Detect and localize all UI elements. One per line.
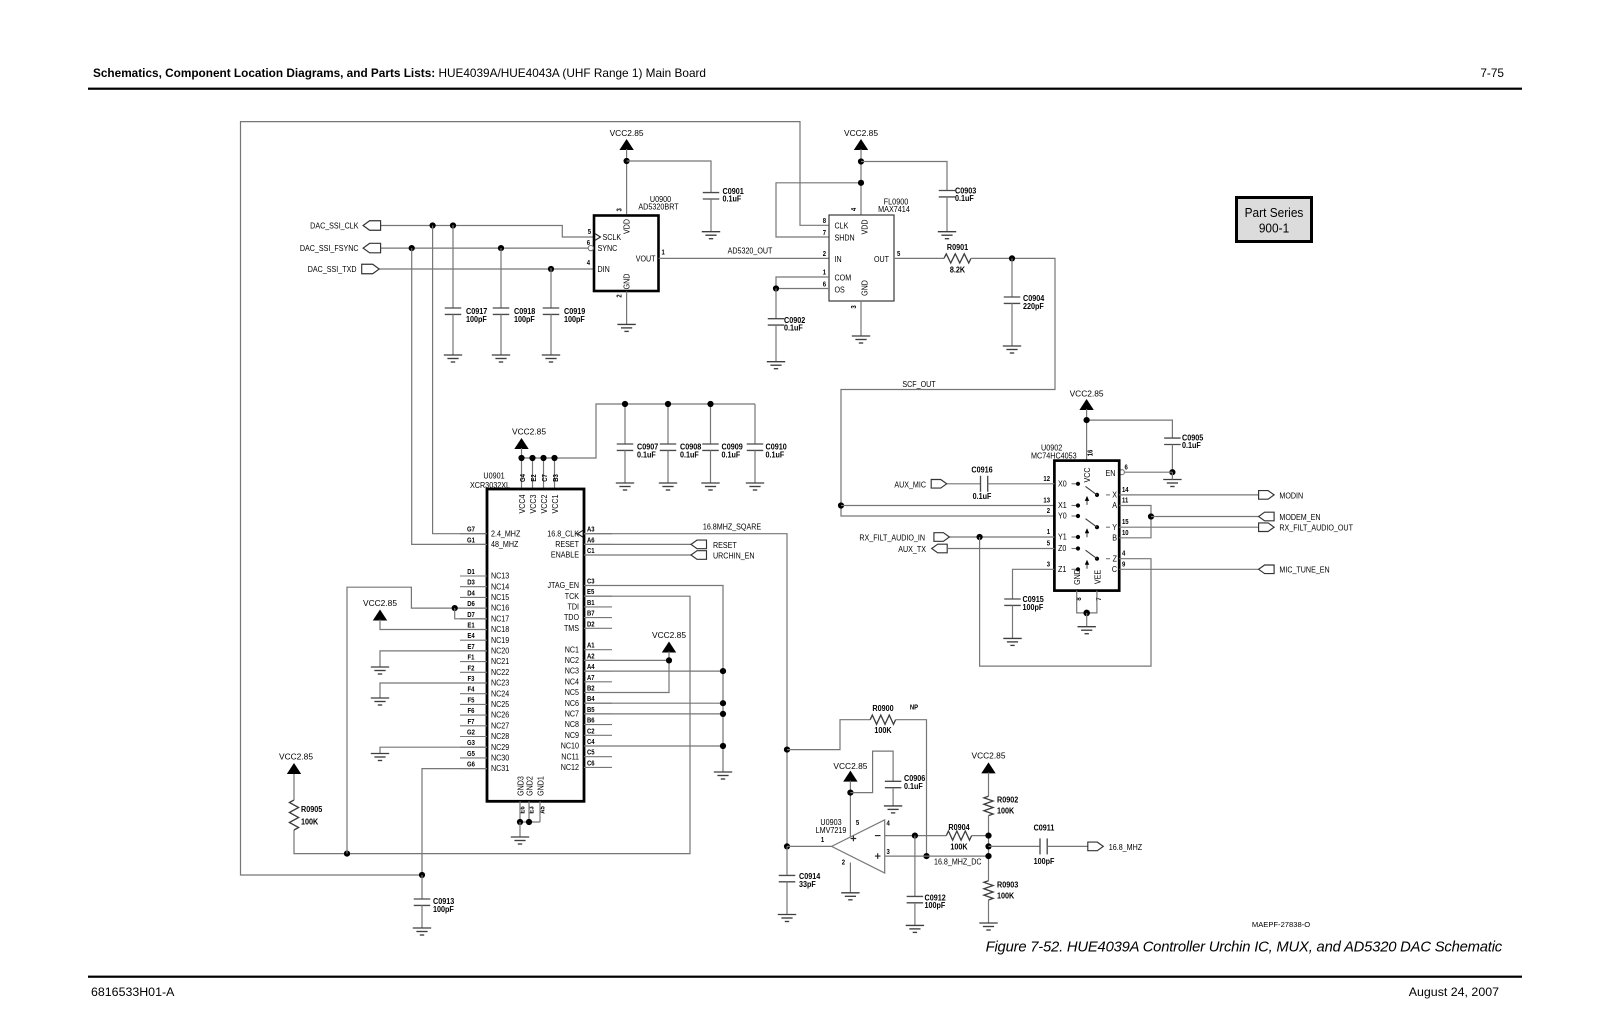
U0901 right pin C3 JTAG_EN — [584, 585, 612, 587]
svg-text:A6: A6 — [587, 537, 595, 545]
capacitor C0917 — [452, 225, 454, 308]
label U0901 refdes — [483, 471, 504, 481]
svg-text:NC6: NC6 — [565, 698, 579, 708]
svg-text:NC24: NC24 — [491, 689, 510, 699]
net label SCF_OUT — [902, 379, 935, 389]
flag AUX_MIC — [931, 480, 947, 489]
junction U0902 GND-VEE — [1083, 610, 1090, 617]
svg-text:VCC2.85: VCC2.85 — [279, 752, 313, 762]
svg-text:B7: B7 — [587, 610, 595, 618]
svg-text:VCC2.85: VCC2.85 — [833, 761, 867, 771]
FL0900 ground pin 3 — [860, 301, 862, 336]
junction divider / R0904 — [985, 833, 991, 839]
wire U0901 VCC pin stub — [532, 458, 534, 489]
U0901 right pin B5 NC7 — [584, 713, 612, 715]
svg-text:VEE: VEE — [1093, 570, 1103, 584]
U0902 input pin X0 (12) — [1058, 479, 1067, 489]
U0900 pin GND (2) — [622, 273, 632, 289]
svg-text:1: 1 — [1047, 529, 1051, 537]
flag DAC_SSI_FSYNC — [363, 243, 381, 253]
header title — [93, 66, 706, 80]
U0902 output pin A (11) — [1112, 501, 1117, 511]
svg-text:NC3: NC3 — [565, 666, 579, 676]
U0901 right pin A2 NC2 — [584, 659, 612, 661]
capacitor C0904 — [1011, 258, 1013, 297]
svg-text:IN: IN — [835, 254, 842, 264]
label C0907 value — [637, 442, 658, 452]
svg-text:F5: F5 — [468, 697, 475, 705]
capacitor C0911 (series) — [1040, 838, 1047, 854]
label R0900 — [872, 704, 893, 714]
header rule — [88, 88, 1522, 90]
svg-text:NC26: NC26 — [491, 710, 509, 720]
svg-text:0.1uF: 0.1uF — [784, 323, 803, 333]
wire 48MHZ drop to U0901 G1 — [412, 248, 487, 544]
ground C0908 — [659, 483, 677, 490]
power VCC2.85 for U0903 — [833, 761, 867, 781]
svg-text:D4: D4 — [467, 590, 475, 598]
wire VCC to A2 and B2 — [584, 652, 669, 693]
FL0900 pin CLK (8) — [835, 221, 850, 231]
label C0918 value — [514, 307, 536, 317]
wire U0902 ground pins — [1077, 591, 1097, 613]
svg-text:0.1uF: 0.1uF — [1182, 441, 1201, 451]
svg-text:G4: G4 — [520, 474, 528, 482]
ground C0914 — [778, 915, 796, 922]
U0901 left pin G7 2.4_MHZ — [460, 533, 487, 535]
svg-text:NC21: NC21 — [491, 657, 509, 667]
wire VDD to C0903 — [861, 162, 947, 191]
label C0904 value — [1023, 293, 1045, 303]
svg-text:2: 2 — [1047, 508, 1051, 516]
svg-text:NC12: NC12 — [561, 762, 579, 772]
flag RX_FILT_AUDIO_IN — [934, 533, 950, 542]
wire R0902 to node — [988, 816, 990, 881]
svg-text:14: 14 — [1122, 487, 1129, 495]
svg-text:GND: GND — [860, 280, 870, 296]
ground E7 — [371, 667, 389, 674]
junction TCK / D6-D7 riser — [344, 851, 350, 857]
ground C0919 — [542, 355, 560, 362]
U0902 output pin Z (4) — [1113, 554, 1118, 564]
resistor R0905 — [289, 800, 298, 830]
svg-text:G2: G2 — [467, 729, 475, 737]
wire FL0900 OUT to R0901 — [894, 257, 944, 259]
FL0900 pin OUT (5) — [874, 254, 889, 264]
svg-text:X: X — [1112, 490, 1117, 500]
svg-text:C0916: C0916 — [971, 465, 993, 475]
wire top frame net (FL0900 CLK loop) — [241, 122, 830, 875]
wire net AUX_TX — [948, 548, 1054, 550]
svg-text:Y0: Y0 — [1058, 511, 1067, 521]
wire D7 branch — [455, 608, 487, 619]
svg-text:B6: B6 — [587, 717, 595, 725]
U0902 pin EN (6) — [1106, 468, 1116, 478]
label C0908 value — [680, 442, 702, 452]
label C0913 value — [433, 897, 455, 907]
label C0901 value — [723, 186, 745, 196]
wire plus input to divider — [885, 855, 989, 857]
svg-text:MODEM_EN: MODEM_EN — [1279, 512, 1320, 522]
svg-text:NC23: NC23 — [491, 678, 509, 688]
wire net RX_FILT_AUDIO_OUT — [1119, 526, 1258, 528]
ground C0918 — [492, 355, 510, 362]
svg-text:GND2: GND2 — [525, 776, 535, 796]
U0900 pin DIN (4) — [598, 264, 610, 274]
wire feedback R0900 loop — [787, 720, 870, 750]
U0902 output pin B (10) — [1112, 533, 1117, 543]
U0901 left pin D4 NC15 — [460, 596, 487, 598]
capacitor C0916 (series) — [981, 476, 988, 492]
svg-text:5: 5 — [1047, 540, 1051, 548]
junction minus input / C0912 — [912, 833, 918, 839]
svg-text:NP: NP — [910, 704, 919, 712]
label C0915 value — [1023, 595, 1045, 605]
svg-text:VDD: VDD — [860, 219, 870, 234]
wire A4 tie — [584, 670, 723, 672]
power VCC2.85 for E1 — [363, 598, 397, 621]
wire JTAG_EN C3 to ground chain — [584, 586, 723, 773]
footer date — [1409, 985, 1499, 999]
label C0914 value — [799, 872, 821, 882]
svg-text:4: 4 — [887, 820, 891, 828]
svg-text:4: 4 — [851, 207, 859, 211]
wire net RX_FILT_AUDIO_IN — [949, 536, 1054, 538]
ground C0917 — [444, 355, 462, 362]
junction RX_FILT_AUDIO_IN / Z loop — [977, 534, 983, 540]
label R0903 — [997, 880, 1019, 890]
wire R0904 to divider — [972, 835, 989, 837]
U0901 left pin D1 NC13 — [460, 575, 487, 577]
svg-text:8.2K: 8.2K — [950, 265, 966, 275]
wire net MODIN — [1119, 494, 1258, 496]
svg-text:Z: Z — [1113, 554, 1118, 564]
svg-text:B3: B3 — [553, 474, 561, 482]
U0900 pin VOUT (1) — [636, 254, 656, 264]
svg-text:VDD: VDD — [622, 219, 632, 234]
svg-text:B4: B4 — [587, 696, 595, 704]
power VCC2.85 for R0905 — [279, 752, 313, 775]
svg-text:MAX7414: MAX7414 — [878, 205, 910, 215]
U0901 right pin B2 NC5 — [584, 692, 612, 694]
ground C0902 — [767, 362, 785, 369]
svg-text:MC74HC4053: MC74HC4053 — [1031, 451, 1077, 461]
U0901 left pin F6 NC26 — [460, 714, 487, 716]
junction DAC_SSI_TXD / C0919 — [548, 266, 554, 272]
net label URCHIN_EN — [713, 551, 755, 561]
wire A/B select tie — [1119, 506, 1151, 538]
wire 2.4MHZ drop to U0901 G7 — [433, 226, 487, 534]
U0901 right pin E5 TCK — [584, 595, 612, 597]
svg-text:DIN: DIN — [598, 264, 610, 274]
wire minus input to R0904 — [885, 835, 947, 837]
svg-text:D7: D7 — [467, 611, 475, 619]
U0901 right pin A7 NC4 — [584, 681, 612, 683]
label C0909 value — [722, 442, 743, 452]
junction FL0900 VDD / C0903 — [858, 158, 864, 164]
label C0906 value — [904, 774, 926, 784]
wire COM/OS tie — [776, 277, 829, 289]
U0901 bottom pin numbers E6 E3 A5 — [519, 806, 527, 814]
svg-text:NC5: NC5 — [565, 688, 579, 698]
svg-text:3: 3 — [1047, 561, 1051, 569]
svg-text:COM: COM — [835, 273, 852, 283]
U0901 left pin G3 NC29 — [460, 746, 487, 748]
ground U0903 — [841, 893, 859, 900]
flag URCHIN_EN — [691, 551, 707, 560]
svg-text:OUT: OUT — [874, 254, 889, 264]
U0901 left pin G5 NC30 — [460, 757, 487, 759]
svg-text:SCLK: SCLK — [603, 232, 622, 242]
svg-text:12: 12 — [1043, 475, 1050, 483]
ground G3 — [371, 754, 389, 761]
U0901 right pin B7 TDO — [584, 617, 612, 619]
U0901 left pin E4 NC19 — [460, 639, 487, 641]
svg-text:VCC2.85: VCC2.85 — [512, 427, 546, 437]
svg-text:SHDN: SHDN — [835, 233, 855, 243]
svg-text:13: 13 — [1043, 497, 1050, 505]
label U0902 refdes — [1041, 443, 1062, 453]
svg-text:Y: Y — [1112, 522, 1117, 532]
FL0900 pin IN (2) — [835, 254, 842, 264]
U0901 16.8_CLK clock mark — [578, 530, 584, 537]
ground C0912 — [906, 925, 924, 932]
svg-text:R0904: R0904 — [948, 823, 970, 833]
capacitor C0905 — [1164, 438, 1181, 444]
svg-text:VCC2.85: VCC2.85 — [652, 630, 686, 640]
svg-text:0.1uF: 0.1uF — [680, 450, 699, 460]
ground C0901 — [702, 232, 720, 239]
U0901 left pin F4 NC24 — [460, 693, 487, 695]
capacitor C0909 — [710, 404, 712, 444]
svg-text:F4: F4 — [468, 686, 475, 694]
wire R0901 to SCF_OUT loop — [841, 258, 1055, 516]
U0901 left pin G6 NC31 — [460, 768, 487, 770]
capacitor C0914 — [786, 846, 788, 875]
junction U0901 GND — [517, 819, 523, 825]
U0902 input pin Z0 (5) — [1058, 544, 1067, 554]
svg-text:F6: F6 — [468, 708, 475, 716]
capacitor C0908 — [667, 404, 669, 444]
wire net MODEM_EN — [1151, 516, 1259, 518]
svg-text:C5: C5 — [587, 749, 595, 757]
ground R0903 — [979, 923, 997, 930]
svg-text:A7: A7 — [587, 674, 595, 682]
svg-text:OS: OS — [835, 285, 845, 295]
wire net DAC_SSI_TXD — [379, 268, 593, 270]
drawing number MAEPF-27838-O — [1252, 920, 1310, 929]
svg-text:VCC2.85: VCC2.85 — [363, 598, 397, 608]
FL0900 pin OS (6) — [835, 285, 845, 295]
wire D6/D7 riser — [347, 587, 487, 853]
U0901 top pin names VCC4-VCC1 — [517, 494, 527, 514]
flag DAC_SSI_TXD — [362, 264, 380, 274]
flag RESET — [691, 540, 707, 549]
wire U0901 VCC pin stub — [543, 458, 545, 489]
svg-text:6: 6 — [823, 281, 827, 289]
junction DAC_SSI_FSYNC / C0918 — [498, 245, 504, 251]
svg-text:D2: D2 — [587, 621, 595, 629]
U0901 left pin E1 NC18 — [460, 629, 487, 631]
svg-text:A2: A2 — [587, 653, 595, 661]
junction U0900 VDD / C0901 — [624, 158, 630, 164]
wire net AUX_MIC — [947, 483, 981, 485]
U0901 right pin C1 ENABLE — [584, 554, 612, 556]
capacitor C0906 — [885, 781, 902, 787]
svg-text:E1: E1 — [467, 622, 475, 630]
U0901 top pin numbers G4 E2 C7 B3 — [520, 474, 528, 482]
junction mux VCC rail — [1084, 417, 1090, 423]
net label MODIN — [1279, 491, 1303, 501]
svg-text:B1: B1 — [587, 600, 595, 608]
U0902 switch X — [1085, 486, 1110, 505]
capacitor C0915 — [1004, 599, 1021, 605]
svg-text:NC17: NC17 — [491, 614, 509, 624]
svg-text:NC16: NC16 — [491, 603, 509, 613]
svg-text:100K: 100K — [874, 726, 892, 736]
svg-text:NC11: NC11 — [561, 752, 579, 762]
svg-text:R0905: R0905 — [301, 805, 323, 815]
wire U0901 VCC pin stub — [554, 458, 556, 489]
svg-text:0.1uF: 0.1uF — [955, 194, 974, 204]
U0901 left pin E7 NC20 — [460, 650, 487, 652]
junction U0903 V+ / C0906 — [847, 790, 853, 796]
resistor R0904 — [946, 831, 971, 840]
svg-text:SYNC: SYNC — [598, 243, 618, 253]
svg-text:3: 3 — [851, 305, 859, 309]
svg-text:X1: X1 — [1058, 501, 1067, 511]
junction DAC_SSI_CLK / C0917 — [450, 222, 456, 228]
svg-text:GND: GND — [622, 273, 632, 289]
ground C0903 — [938, 232, 956, 239]
svg-text:1: 1 — [821, 837, 825, 845]
svg-text:XCR3032XL: XCR3032XL — [470, 481, 511, 491]
svg-text:D1: D1 — [467, 569, 475, 577]
svg-text:0.1uF: 0.1uF — [973, 492, 992, 502]
svg-text:TDI: TDI — [568, 602, 579, 612]
svg-text:AUX_MIC: AUX_MIC — [894, 480, 926, 490]
svg-text:15: 15 — [1122, 519, 1129, 527]
svg-text:0.1uF: 0.1uF — [637, 450, 656, 460]
svg-text:0.1uF: 0.1uF — [766, 450, 785, 460]
svg-text:U0901: U0901 — [483, 471, 504, 481]
svg-text:100pF: 100pF — [466, 315, 487, 325]
svg-text:R0900: R0900 — [872, 704, 893, 714]
junction VCC rail / C0907 — [622, 401, 628, 407]
svg-text:VCC2: VCC2 — [539, 494, 549, 513]
U0901 right pin A4 NC3 — [584, 670, 612, 672]
flag MODEM_EN — [1259, 512, 1275, 521]
svg-text:0.1uF: 0.1uF — [722, 450, 741, 460]
svg-text:100K: 100K — [301, 817, 319, 827]
U0901 right pin A1 NC1 — [584, 649, 612, 651]
svg-text:F1: F1 — [468, 654, 475, 662]
svg-text:16: 16 — [1087, 449, 1095, 456]
U0903 pin 2 ground — [842, 859, 846, 867]
svg-text:R0901: R0901 — [947, 243, 969, 253]
svg-text:VCC4: VCC4 — [517, 494, 527, 514]
svg-text:3: 3 — [616, 208, 624, 212]
svg-text:E7: E7 — [467, 644, 475, 652]
svg-text:C0911: C0911 — [1034, 823, 1056, 833]
U0902 input pin Y0 (2) — [1058, 511, 1067, 521]
junction COM-OS — [773, 285, 779, 291]
junction D6/D7 — [452, 605, 458, 611]
svg-text:AD5320BRT: AD5320BRT — [638, 202, 679, 212]
svg-text:NC27: NC27 — [491, 721, 509, 731]
U0901 bottom pin names GND3-GND1 — [516, 776, 526, 796]
wire net AD5320_OUT — [659, 257, 830, 259]
wire E7 to ground — [380, 651, 487, 667]
svg-text:1: 1 — [823, 269, 827, 277]
svg-text:100K: 100K — [950, 842, 968, 852]
FL0900 pin VDD (4) — [860, 219, 870, 234]
svg-text:August 24, 2007: August 24, 2007 — [1409, 985, 1499, 999]
label C0912 value — [925, 893, 946, 903]
svg-text:10: 10 — [1122, 529, 1129, 537]
junction A2 VCC — [666, 657, 672, 663]
U0903 pin 1 output — [821, 837, 825, 845]
U0901 left pin F3 NC23 — [460, 682, 487, 684]
wire G6 to C0913 node — [422, 769, 487, 875]
svg-text:G3: G3 — [467, 740, 475, 748]
U0901 right pin C5 NC11 — [584, 756, 612, 758]
U0902 switch Y — [1085, 519, 1110, 538]
wire net RESET — [584, 543, 691, 545]
junction divider / 16.8_MHZ out — [985, 843, 991, 849]
junction A4 — [720, 668, 726, 674]
label C0919 value — [564, 307, 585, 317]
power VCC2.85 for U0902 — [1070, 389, 1104, 411]
capacitor C0913 — [421, 875, 423, 899]
U0902 pin VCC (16) — [1082, 467, 1092, 482]
svg-text:D3: D3 — [467, 579, 475, 587]
wire R0903 to ground — [988, 900, 990, 923]
power VCC2.85 for FL0900 — [844, 128, 878, 150]
wire net URCHIN_EN — [584, 554, 691, 556]
ground U0901 — [511, 837, 529, 844]
svg-text:NC31: NC31 — [491, 764, 509, 774]
svg-text:F2: F2 — [468, 665, 475, 673]
wire G3 to ground — [380, 747, 487, 753]
wire VCC rail to C0905 — [1087, 420, 1173, 438]
wire Z output loop — [980, 537, 1151, 666]
U0902 input pin Z1 (3) — [1058, 564, 1066, 574]
net label RESET — [713, 540, 737, 550]
svg-text:VCC2.85: VCC2.85 — [844, 128, 878, 138]
flag MIC_TUNE_EN — [1259, 565, 1275, 574]
ground C0905-EN — [1163, 480, 1181, 487]
svg-text:GND1: GND1 — [536, 776, 546, 796]
svg-text:VCC2.85: VCC2.85 — [610, 128, 644, 138]
ground C0915 — [1003, 638, 1021, 645]
FL0900 pin COM (1) — [835, 273, 852, 283]
svg-text:CLK: CLK — [835, 221, 850, 231]
label C0903 value — [955, 186, 977, 196]
svg-text:NC7: NC7 — [565, 709, 579, 719]
svg-text:MIC_TUNE_EN: MIC_TUNE_EN — [1279, 565, 1329, 575]
label C0910 value — [766, 442, 787, 452]
wire U0901 VCC pin G4 stub — [521, 458, 523, 489]
svg-text:NC28: NC28 — [491, 732, 509, 742]
svg-text:7: 7 — [823, 230, 827, 238]
svg-text:NC8: NC8 — [565, 720, 579, 730]
U0901 left pin D7 NC17 — [460, 618, 487, 620]
svg-text:ENABLE: ENABLE — [551, 550, 579, 560]
ground C0909 — [701, 483, 719, 490]
U0902 switch Z — [1085, 550, 1110, 569]
IC U0901 XCR3032XL box — [487, 489, 584, 801]
